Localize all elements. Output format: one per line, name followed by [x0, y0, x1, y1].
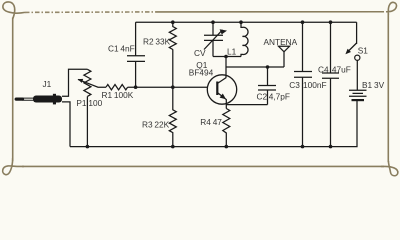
jack J1 neck	[23, 98, 34, 100]
junction dot ground R3	[171, 145, 175, 149]
junction dot ground C4	[329, 145, 333, 149]
border frame bottom-right corner loop	[381, 161, 398, 176]
wire C4 stem lower	[330, 78, 332, 146]
svg-text:B1: B1	[362, 80, 373, 90]
capacitor C4	[322, 73, 339, 78]
svg-text:C4: C4	[318, 65, 329, 75]
junction dot rail R2	[171, 20, 175, 24]
potentiometer P1 wiper line	[78, 79, 106, 87]
resistor R2	[169, 22, 176, 49]
inductor L1	[241, 22, 248, 56]
svg-text:R3: R3	[142, 119, 153, 129]
junction dot ground P1	[86, 145, 90, 149]
junction dot rail CV	[211, 20, 215, 24]
transistor Q1 base bar	[216, 82, 218, 96]
svg-text:100K: 100K	[114, 90, 134, 100]
capacitor C2	[258, 86, 276, 91]
jack J1 tip contact	[16, 97, 22, 100]
switch S1 contact circle	[355, 55, 360, 60]
wire battery bottom	[356, 100, 359, 147]
jack J1 ring	[53, 94, 56, 105]
resistor R3	[169, 87, 176, 146]
wire R2 bottom to base node	[172, 49, 174, 87]
junction dot rail C4	[329, 20, 333, 24]
wire jack tip to pot top	[62, 69, 87, 96]
wire emitter to C2	[226, 104, 267, 106]
svg-text:C1: C1	[108, 43, 119, 53]
wire C3 stem upper	[302, 22, 304, 71]
transistor Q1 emitter lead	[217, 93, 226, 109]
wire C3 stem lower	[302, 77, 304, 146]
svg-text:47: 47	[213, 117, 223, 127]
svg-text:P1: P1	[76, 98, 87, 108]
wire collector vertical	[225, 57, 227, 78]
svg-text:S1: S1	[358, 45, 369, 55]
wire tank node CV to L1	[213, 56, 241, 58]
jack J1 plug body	[33, 96, 62, 103]
wire ground bottom rail	[70, 146, 357, 148]
border frame bottom side	[22, 165, 384, 167]
svg-text:L1: L1	[227, 47, 237, 57]
junction dot base C1	[134, 85, 138, 89]
resistor R1	[106, 85, 128, 90]
svg-text:BF494: BF494	[189, 67, 214, 77]
border frame top-left corner loop	[3, 2, 25, 19]
junction dot base R2 R3	[171, 85, 175, 89]
junction dot ground R4	[225, 145, 229, 149]
border frame top-right corner loop	[386, 2, 396, 15]
potentiometer P1 track	[84, 69, 91, 96]
capacitor C1	[127, 56, 145, 62]
wire switch S1 upper	[356, 22, 358, 44]
wire jack sleeve to ground	[62, 102, 70, 147]
svg-text:R1: R1	[102, 90, 113, 100]
svg-text:R2: R2	[143, 37, 154, 47]
wire R1 to base node	[128, 86, 208, 88]
capacitor C3	[294, 72, 312, 78]
arrowhead S1	[345, 49, 351, 55]
svg-text:C2: C2	[257, 92, 268, 102]
wire C2 stem lower	[267, 90, 269, 105]
svg-text:22K: 22K	[154, 119, 169, 129]
border frame right side	[387, 14, 389, 163]
junction dot ground C3	[301, 145, 305, 149]
wire C2 stem upper	[267, 67, 269, 86]
svg-text:4,7pF: 4,7pF	[269, 92, 290, 102]
svg-text:ANTENA: ANTENA	[264, 37, 298, 47]
svg-text:J1: J1	[43, 79, 52, 89]
wire antenna vertical	[283, 52, 285, 67]
arrowhead CV	[220, 29, 227, 34]
wire C1 stem lower	[135, 61, 137, 87]
capacitor CV variable	[204, 35, 223, 40]
transistor Q1 circle	[207, 75, 236, 104]
transistor Q1 collector lead	[217, 78, 226, 84]
border frame top dash-dot segment	[25, 11, 156, 14]
border frame bottom-left corner loop	[3, 158, 24, 175]
junction dot rail L1	[239, 20, 243, 24]
svg-text:R4: R4	[200, 117, 211, 127]
svg-text:3V: 3V	[374, 80, 385, 90]
wire CV stem lower	[212, 40, 214, 56]
svg-text:4nF: 4nF	[120, 43, 134, 53]
wire antenna branch	[226, 66, 284, 68]
arrowhead P1 wiper	[78, 79, 84, 83]
junction dot antenna C2	[266, 65, 270, 69]
border frame top solid segment	[156, 11, 384, 13]
svg-text:47uF: 47uF	[332, 65, 351, 75]
arrow of CV	[204, 30, 223, 50]
antenna symbol	[279, 46, 290, 52]
wire C4 stem upper	[330, 22, 332, 73]
wire C1 stem upper	[135, 22, 137, 56]
resistor R4	[223, 109, 230, 147]
junction dot tank collector	[224, 55, 228, 59]
svg-text:100nF: 100nF	[303, 80, 327, 90]
wire pot bottom to ground	[86, 96, 88, 146]
wire CV stem upper	[212, 22, 214, 35]
svg-text:C3: C3	[289, 80, 300, 90]
svg-text:100: 100	[88, 98, 102, 108]
junction dot rail C3	[301, 20, 305, 24]
svg-text:CV: CV	[194, 48, 206, 58]
switch S1 arm	[348, 43, 357, 52]
wire V+ top rail	[136, 21, 357, 23]
wire battery top	[356, 60, 358, 90]
border frame left side	[12, 18, 14, 162]
battery B1	[349, 90, 367, 96]
svg-text:33K: 33K	[155, 37, 170, 47]
arrowhead Q1 emitter	[220, 94, 226, 100]
